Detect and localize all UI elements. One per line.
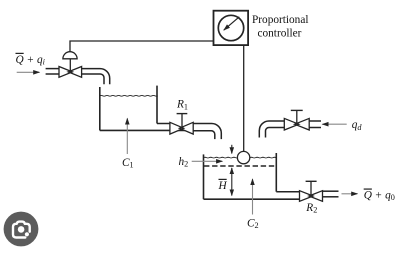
svg-text:C2: C2 [247,217,259,230]
svg-text:R1: R1 [176,99,188,112]
svg-text:C1: C1 [122,157,134,170]
svg-text:controller: controller [258,28,302,40]
svg-text:Proportional: Proportional [252,14,308,26]
svg-text:H: H [218,180,228,192]
svg-text:Q + qi: Q + qi [16,54,46,67]
svg-text:R2: R2 [305,202,317,215]
svg-text:h2: h2 [179,156,189,169]
svg-text:qd: qd [352,119,363,132]
svg-text:Q + q0: Q + q0 [364,190,395,203]
